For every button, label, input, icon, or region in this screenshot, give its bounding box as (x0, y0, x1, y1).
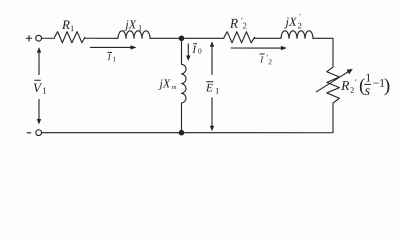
variable resistor wiper arrow (316, 69, 353, 92)
svg-text:R: R (340, 78, 350, 93)
label E1 (205, 82, 219, 96)
voltage arrow E1 upper (210, 41, 214, 75)
svg-text:2: 2 (298, 20, 302, 30)
resistor R1 (55, 32, 85, 43)
current arrow I1 (90, 45, 137, 49)
svg-text:0: 0 (198, 46, 202, 55)
current arrow I'2 (231, 46, 287, 50)
node A (top junction) (179, 35, 185, 41)
label R1 (61, 17, 74, 33)
svg-text:R: R (61, 17, 70, 32)
svg-text:2: 2 (268, 57, 272, 66)
svg-text:R: R (229, 16, 239, 31)
wire right bottom (42, 103, 333, 133)
node B (bottom junction) (179, 130, 185, 136)
label jXm (157, 76, 176, 91)
svg-text:1: 1 (113, 55, 117, 63)
wire jX'2 to right corner (313, 38, 333, 67)
current arrow I0 (186, 43, 190, 61)
svg-text:1: 1 (215, 86, 219, 96)
label I0 (191, 44, 202, 56)
resistor R'2 (224, 32, 255, 43)
wire between R1 and jX1 (85, 37, 118, 39)
voltage arrow V1 lower (37, 99, 41, 125)
svg-text:jX: jX (157, 76, 170, 90)
label jX1 (123, 17, 142, 32)
magnetizing inductor jXm (181, 64, 186, 103)
voltage arrow E1 lower (210, 97, 214, 131)
inductor jX1 (118, 31, 150, 39)
svg-text:1: 1 (138, 23, 142, 33)
wire node A down to jXm (181, 38, 183, 64)
variable resistor R'2(1/s-1) zigzag (327, 67, 340, 103)
wire jXm to bottom node (180, 103, 182, 133)
svg-text:E: E (205, 82, 213, 94)
svg-text:s: s (365, 84, 371, 99)
terminal circle top-left (36, 35, 42, 41)
label jX'2 (284, 12, 302, 30)
label I1 (107, 52, 117, 63)
svg-text:jX: jX (123, 17, 136, 31)
svg-text:1: 1 (42, 85, 47, 95)
voltage arrow V1 upper (37, 47, 41, 75)
wire jX1 to node A (150, 37, 224, 39)
label V1 (33, 80, 47, 96)
svg-text:1: 1 (365, 71, 371, 85)
svg-text:1: 1 (70, 23, 74, 33)
wire R'2 to jX'2 (255, 37, 282, 39)
terminal circle bottom-left (36, 130, 42, 136)
svg-text:): ) (384, 75, 390, 96)
terminal minus sign (27, 132, 31, 134)
label R'2(1/s-1) (340, 71, 390, 99)
svg-text:jX: jX (284, 15, 298, 29)
inductor jX'2 (281, 31, 313, 39)
wire top-left (42, 37, 55, 39)
svg-text:2: 2 (243, 20, 247, 30)
label R'2 (229, 16, 247, 31)
label I'2 (259, 53, 272, 66)
terminal plus sign (26, 36, 31, 41)
svg-text:m: m (172, 84, 177, 91)
